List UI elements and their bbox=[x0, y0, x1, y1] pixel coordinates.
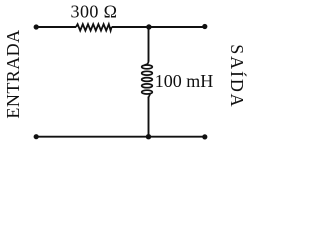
node: output bottom terminal bbox=[202, 134, 207, 139]
svg-text:ENTRADA: ENTRADA bbox=[3, 29, 23, 118]
node: top junction bbox=[146, 24, 151, 29]
inductor L (100 mH) coil bbox=[142, 61, 153, 99]
svg-text:SAÍDA: SAÍDA bbox=[227, 44, 248, 108]
resistor R (300 ohm) zigzag bbox=[76, 24, 112, 30]
wire: top left segment bbox=[36, 26, 76, 28]
wire: inductor bottom lead bbox=[148, 97, 150, 137]
svg-text:100 mH: 100 mH bbox=[155, 71, 214, 91]
node: output top terminal bbox=[202, 24, 207, 29]
wire: inductor top lead bbox=[148, 27, 150, 62]
node: bottom junction bbox=[146, 134, 151, 139]
wire: top right segment bbox=[112, 26, 205, 28]
wire: bottom bbox=[36, 136, 205, 138]
node: input top terminal bbox=[34, 24, 39, 29]
node: input bottom terminal bbox=[34, 134, 39, 139]
svg-text:300 Ω: 300 Ω bbox=[71, 2, 118, 22]
